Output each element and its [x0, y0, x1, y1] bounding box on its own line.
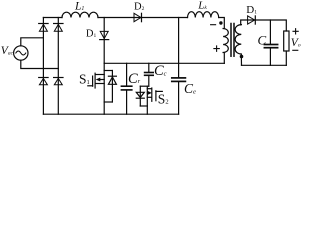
plus sign primary bottom	[214, 46, 219, 51]
wire Vac bottom lead to bridge right mid-node	[21, 60, 59, 68]
plus sign output	[293, 29, 298, 34]
svg-text:Lk: Lk	[197, 0, 207, 11]
wire bottom rail	[43, 113, 178, 115]
diode bridge bottom-left	[39, 78, 48, 85]
transformer secondary winding	[235, 25, 241, 54]
AC source Vin circle with sine	[14, 46, 28, 60]
svg-text:Cr: Cr	[128, 71, 141, 87]
wire resistor bottom	[285, 51, 287, 65]
transformer core	[231, 24, 234, 57]
wire vertical from top rail to Ce	[178, 18, 180, 78]
wire output bottom rail	[242, 64, 287, 66]
svg-text:Vac: Vac	[1, 45, 14, 57]
svg-text:S2: S2	[158, 91, 169, 106]
svg-text:D2: D2	[134, 2, 145, 13]
wire secondary bottom down	[240, 54, 242, 65]
diode D1 (output rectifier)	[248, 16, 256, 24]
capacitor C	[264, 20, 277, 65]
node dot primary top	[219, 21, 222, 24]
wire Vac top lead to bridge left mid-node	[21, 38, 44, 46]
svg-text:S1: S1	[79, 72, 90, 87]
svg-text:L1: L1	[74, 1, 84, 13]
wire top rail left segment	[43, 17, 62, 19]
diode D2	[134, 13, 142, 21]
wire transformer primary bottom to rail	[223, 53, 225, 64]
wire second rail	[104, 62, 224, 64]
wire top rail middle segment	[98, 17, 188, 19]
mosfet S2	[140, 86, 162, 114]
capacitor Ce	[172, 78, 186, 114]
body diode of S2	[136, 86, 147, 106]
diode bridge top-right	[54, 24, 63, 32]
diode bridge top-left	[39, 24, 48, 32]
svg-text:D1: D1	[86, 28, 97, 39]
resistor load box	[284, 31, 289, 51]
diode D1 (clamp, on switch-node vertical)	[100, 31, 109, 39]
wire secondary top to D1	[241, 20, 287, 31]
inductor L1	[62, 12, 98, 17]
minus sign primary top	[211, 24, 216, 26]
wire top rail to transformer primary	[219, 18, 225, 29]
svg-text:Vo: Vo	[291, 37, 301, 49]
capacitor Cc	[145, 63, 154, 86]
diode bridge bottom-right	[54, 78, 63, 85]
wire bridge left leg	[42, 18, 44, 115]
transformer primary winding	[223, 29, 228, 53]
wire bridge right leg	[57, 18, 59, 115]
mosfet S1	[88, 63, 104, 114]
minus sign output	[293, 49, 298, 51]
inductor Lk	[188, 12, 219, 18]
svg-text:D1: D1	[246, 4, 257, 16]
svg-text:Cc: Cc	[154, 63, 167, 79]
svg-text:Ce: Ce	[184, 81, 196, 96]
node dot secondary bottom	[240, 55, 244, 59]
wire D1 clamp branch vertical	[103, 18, 105, 64]
svg-text:C: C	[258, 33, 267, 48]
capacitor Cr	[121, 63, 131, 114]
body diode of S1	[104, 71, 116, 103]
